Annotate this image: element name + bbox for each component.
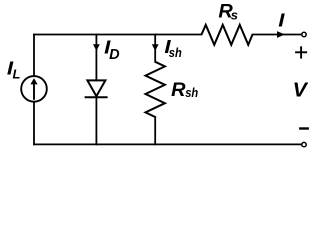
current source arrow [33,84,35,100]
svg-text:R: R [171,80,186,101]
wire top horizontal [34,34,202,36]
svg-text:D: D [109,47,120,63]
svg-text:s: s [231,7,238,22]
plus sign [295,46,307,58]
wire shunt branch upper [154,35,156,62]
diode D triangle [87,80,105,96]
arrow Ish [152,44,159,51]
wire diode branch lower [95,97,97,144]
svg-text:sh: sh [169,46,182,60]
wire left vertical lower [33,102,35,145]
wire shunt branch lower [154,117,156,144]
resistor Rsh [146,62,165,117]
wire bottom horizontal [34,143,301,145]
wire top right to terminal [253,34,302,36]
resistor Rs [202,25,253,45]
current source U1 circle [21,76,47,102]
diode D cathode bar [85,96,108,98]
svg-text:V: V [293,79,309,101]
minus sign [299,127,309,129]
wire diode branch upper [95,35,97,81]
terminal top [302,32,306,36]
terminal bottom [302,142,306,146]
arrow I output [277,31,285,38]
svg-text:L: L [13,66,21,81]
arrow ID [93,44,100,51]
wire left vertical upper [33,35,35,77]
svg-text:sh: sh [185,86,198,100]
